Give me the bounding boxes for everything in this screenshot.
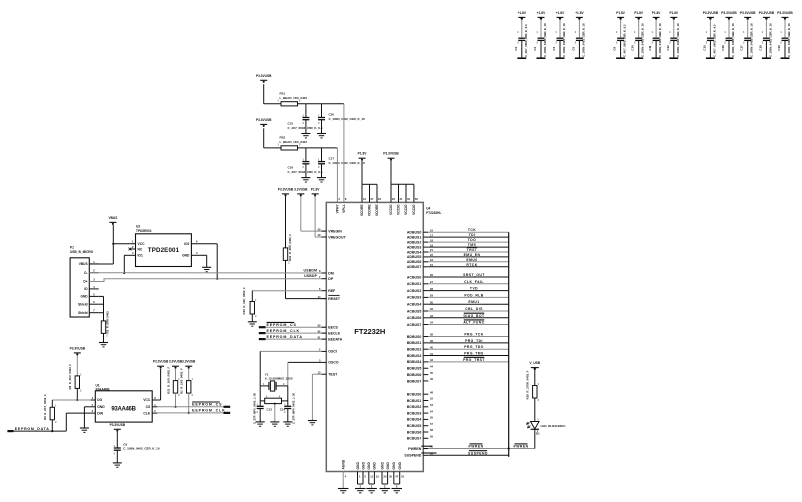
svg-text:USBDP: USBDP xyxy=(304,274,318,278)
svg-text:+1.8V: +1.8V xyxy=(537,11,546,15)
svg-text:P3.3VUSB: P3.3VUSB xyxy=(721,11,737,15)
svg-text:GND: GND xyxy=(398,462,402,470)
svg-text:C9: C9 xyxy=(613,47,617,51)
svg-text:VCORE: VCORE xyxy=(360,204,364,217)
svg-text:USBDM: USBDM xyxy=(304,268,318,272)
svg-text:VCCIO: VCCIO xyxy=(412,204,416,215)
svg-text:C_100N_0402_CER_K_16: C_100N_0402_CER_K_16 xyxy=(543,23,547,57)
svg-text:ADBUS1: ADBUS1 xyxy=(407,235,421,239)
svg-text:ACBUS3: ACBUS3 xyxy=(407,296,421,300)
svg-text:X_12.000MHZ_3225: X_12.000MHZ_3225 xyxy=(265,377,293,381)
svg-text:+1.8V: +1.8V xyxy=(556,11,565,15)
svg-text:OSCI: OSCI xyxy=(328,350,337,354)
svg-text:DM: DM xyxy=(328,271,334,275)
svg-text:L_BEAD_1K0_0402: L_BEAD_1K0_0402 xyxy=(280,140,308,144)
svg-text:P3.3VUSB: P3.3VUSB xyxy=(703,11,719,15)
svg-text:Shield: Shield xyxy=(78,311,88,315)
svg-text:C_100N_0402_CER_K_16: C_100N_0402_CER_K_16 xyxy=(329,161,366,165)
svg-text:C10: C10 xyxy=(631,45,635,51)
svg-text:EEPROM_DATA: EEPROM_DATA xyxy=(267,335,303,339)
svg-text:C_100N_0402_CER_K_16: C_100N_0402_CER_K_16 xyxy=(329,117,366,121)
svg-text:FT2232H: FT2232H xyxy=(354,327,385,336)
svg-text:TCK: TCK xyxy=(468,228,476,232)
svg-text:C16: C16 xyxy=(721,45,725,51)
svg-text:GND: GND xyxy=(367,462,371,470)
svg-text:P3.3VUSB: P3.3VUSB xyxy=(153,360,169,364)
svg-text:+1.8V: +1.8V xyxy=(518,11,527,15)
svg-text:SUSPEND: SUSPEND xyxy=(468,451,488,455)
svg-text:R2 R_0R0_0402: R2 R_0R0_0402 xyxy=(106,311,110,334)
svg-text:C16: C16 xyxy=(288,166,294,170)
svg-text:BDBUS7: BDBUS7 xyxy=(407,379,421,383)
svg-text:BCBUS7: BCBUS7 xyxy=(407,437,421,441)
svg-text:C_100N_0402_CER_K_16: C_100N_0402_CER_K_16 xyxy=(658,23,662,57)
svg-text:DIAG_BOT: DIAG_BOT xyxy=(463,314,485,318)
svg-text:C19: C19 xyxy=(777,45,781,51)
svg-text:ACBUS6: ACBUS6 xyxy=(407,316,421,320)
svg-text:3.3VUSB: 3.3VUSB xyxy=(182,360,196,364)
svg-text:C17: C17 xyxy=(740,45,744,51)
svg-text:PWREN: PWREN xyxy=(408,447,422,451)
svg-text:AGND: AGND xyxy=(342,459,346,469)
svg-text:ADBUS0: ADBUS0 xyxy=(407,231,421,235)
svg-text:TPD2E001: TPD2E001 xyxy=(136,229,152,233)
svg-text:PRG_TDI: PRG_TDI xyxy=(465,339,483,343)
svg-text:Shield: Shield xyxy=(78,302,88,306)
svg-text:VPLL: VPLL xyxy=(342,204,346,212)
svg-text:OSCO: OSCO xyxy=(328,361,339,365)
svg-text:EEPROM_CS: EEPROM_CS xyxy=(192,403,222,407)
svg-text:P1.8V: P1.8V xyxy=(358,152,368,156)
svg-text:RTCK: RTCK xyxy=(466,263,477,267)
svg-text:C_100N_0402_CER_K_16: C_100N_0402_CER_K_16 xyxy=(581,23,585,57)
svg-text:IO1: IO1 xyxy=(138,254,143,258)
svg-text:ACBUS7: ACBUS7 xyxy=(407,323,421,327)
svg-text:PRG_TDO: PRG_TDO xyxy=(464,345,484,349)
svg-text:C_100N_0402_CER_K_16: C_100N_0402_CER_K_16 xyxy=(787,23,791,57)
svg-text:TRST: TRST xyxy=(467,248,478,252)
svg-text:D+: D+ xyxy=(83,280,87,284)
svg-text:TDI: TDI xyxy=(469,233,476,237)
svg-text:C_4U7_0603_X5R_K_6.3: C_4U7_0603_X5R_K_6.3 xyxy=(524,24,528,57)
svg-text:GND: GND xyxy=(361,462,365,470)
svg-text:R1 R_1K0_0402_F: R1 R_1K0_0402_F xyxy=(180,368,184,394)
svg-text:PWREN: PWREN xyxy=(513,445,528,449)
svg-text:VPHY: VPHY xyxy=(336,204,340,214)
svg-text:CLK_FAIL: CLK_FAIL xyxy=(464,280,484,284)
svg-text:P1.8V: P1.8V xyxy=(669,11,679,15)
svg-text:C5: C5 xyxy=(571,47,575,51)
svg-text:PRG_TCK: PRG_TCK xyxy=(464,333,483,337)
svg-text:P3.3VUSB: P3.3VUSB xyxy=(759,11,775,15)
svg-text:GND: GND xyxy=(380,462,384,470)
svg-text:ADBUS3: ADBUS3 xyxy=(407,245,421,249)
svg-text:TDO: TDO xyxy=(468,238,477,242)
svg-text:ADBUS6: ADBUS6 xyxy=(407,260,421,264)
svg-text:C_4U7_0603_X5R_K_6.3: C_4U7_0603_X5R_K_6.3 xyxy=(712,24,716,57)
svg-text:VCORE: VCORE xyxy=(375,204,379,217)
svg-text:FB1: FB1 xyxy=(280,92,286,96)
svg-text:BDBUS1: BDBUS1 xyxy=(407,341,421,345)
svg-text:VCCIO: VCCIO xyxy=(397,204,401,215)
svg-text:C2: C2 xyxy=(514,47,518,51)
svg-text:C_4U7_0603_X5R_K_6.3: C_4U7_0603_X5R_K_6.3 xyxy=(623,24,627,57)
svg-text:3.3VUSB: 3.3VUSB xyxy=(169,360,183,364)
svg-text:C12: C12 xyxy=(666,45,670,51)
svg-text:BCBUS0: BCBUS0 xyxy=(407,393,421,397)
svg-text:C18: C18 xyxy=(758,45,762,51)
svg-text:TMS: TMS xyxy=(468,243,477,247)
svg-text:VREGIN: VREGIN xyxy=(328,229,342,233)
svg-text:BCBUS4: BCBUS4 xyxy=(407,418,421,422)
svg-text:VCC: VCC xyxy=(138,242,146,246)
svg-text:C_27P_NP0_0402_J_50: C_27P_NP0_0402_J_50 xyxy=(252,392,256,424)
svg-text:C20: C20 xyxy=(329,113,335,117)
svg-text:L_BEAD_1K0_0402: L_BEAD_1K0_0402 xyxy=(280,96,308,100)
svg-text:EMU0: EMU0 xyxy=(466,258,477,262)
svg-text:CS: CS xyxy=(146,405,151,409)
svg-text:SUSPEND: SUSPEND xyxy=(404,454,421,458)
svg-text:NC: NC xyxy=(138,247,143,251)
svg-text:ACBUS4: ACBUS4 xyxy=(407,303,421,307)
svg-text:EECS: EECS xyxy=(328,326,338,330)
svg-text:BDBUS0: BDBUS0 xyxy=(407,335,421,339)
svg-text:ALT_FUNC: ALT_FUNC xyxy=(463,321,484,325)
svg-text:BCBUS2: BCBUS2 xyxy=(407,405,421,409)
svg-text:EEPROM_CLK: EEPROM_CLK xyxy=(192,409,225,413)
svg-text:BCBUS6: BCBUS6 xyxy=(407,430,421,434)
svg-text:VREGOUT: VREGOUT xyxy=(328,235,346,239)
svg-text:GND: GND xyxy=(182,254,190,258)
svg-text:CBL_DIS: CBL_DIS xyxy=(465,307,483,311)
svg-text:P3.3VUSB: P3.3VUSB xyxy=(70,346,86,350)
svg-text:C17: C17 xyxy=(329,157,335,161)
svg-text:TEST: TEST xyxy=(328,373,338,377)
svg-text:P1.8V: P1.8V xyxy=(616,11,626,15)
svg-text:RESET: RESET xyxy=(328,297,341,301)
svg-text:ACBUS5: ACBUS5 xyxy=(407,309,421,313)
svg-text:P3.3VUSB: P3.3VUSB xyxy=(110,423,126,427)
svg-text:DP: DP xyxy=(328,277,334,281)
svg-text:GND: GND xyxy=(356,462,360,470)
svg-text:R8 R_2K7_0402_F: R8 R_2K7_0402_F xyxy=(43,394,47,420)
svg-text:D-: D- xyxy=(84,271,87,275)
svg-text:C_100N_0402_CER_K_16: C_100N_0402_CER_K_16 xyxy=(676,23,680,57)
svg-text:POD_RLB: POD_RLB xyxy=(464,293,483,297)
svg-text:ADBUS7: ADBUS7 xyxy=(407,265,421,269)
svg-text:SRST_OUT: SRST_OUT xyxy=(463,273,485,277)
svg-text:ACBUS0: ACBUS0 xyxy=(407,275,421,279)
svg-text:GND: GND xyxy=(97,405,105,409)
svg-text:BDBUS5: BDBUS5 xyxy=(407,367,421,371)
svg-text:LED_RLN4148GC: LED_RLN4148GC xyxy=(541,424,567,428)
svg-text:BDBUS2: BDBUS2 xyxy=(407,348,421,352)
svg-text:P3.3VUSB: P3.3VUSB xyxy=(278,187,294,191)
svg-text:C15: C15 xyxy=(288,122,294,126)
svg-text:C_100N_0402_CER_K_16: C_100N_0402_CER_K_16 xyxy=(641,23,645,57)
svg-text:GND: GND xyxy=(81,295,89,299)
svg-text:ADBUS4: ADBUS4 xyxy=(407,250,421,254)
svg-text:R6 R_2K2_0402_F: R6 R_2K2_0402_F xyxy=(68,364,72,390)
svg-text:BCBUS3: BCBUS3 xyxy=(407,411,421,415)
svg-text:PRG_TMS: PRG_TMS xyxy=(464,352,484,356)
svg-text:USB_B_MICRO: USB_B_MICRO xyxy=(70,250,94,254)
svg-text:PWREN: PWREN xyxy=(468,445,483,449)
svg-text:C_27P_NP0_0402_J_50: C_27P_NP0_0402_J_50 xyxy=(292,392,296,424)
svg-text:C6: C6 xyxy=(123,442,127,446)
svg-text:C11: C11 xyxy=(648,45,652,51)
svg-text:EECLK: EECLK xyxy=(328,331,340,335)
svg-text:R28 R_270R_0402_F: R28 R_270R_0402_F xyxy=(525,370,529,399)
svg-text:ACBUS1: ACBUS1 xyxy=(407,282,421,286)
svg-text:P3.3VUSB: P3.3VUSB xyxy=(777,11,793,15)
svg-text:EEPROM_DATA: EEPROM_DATA xyxy=(15,427,50,431)
svg-text:FT2232HL: FT2232HL xyxy=(426,211,441,215)
svg-text:BCBUS5: BCBUS5 xyxy=(407,424,421,428)
svg-text:EEPROM_CLK: EEPROM_CLK xyxy=(267,329,300,333)
svg-text:+1.8V: +1.8V xyxy=(575,11,584,15)
svg-text:C_100N_0402_CER_K_16: C_100N_0402_CER_K_16 xyxy=(731,23,735,57)
svg-text:REF: REF xyxy=(328,289,336,293)
svg-text:PRG_TRST: PRG_TRST xyxy=(463,358,485,362)
svg-text:C_4U7_0603_X5R_K_6.3: C_4U7_0603_X5R_K_6.3 xyxy=(288,126,323,130)
svg-text:P3.3VUSB: P3.3VUSB xyxy=(256,118,272,122)
svg-text:EEPROM_CS: EEPROM_CS xyxy=(267,323,297,327)
svg-text:V_USB: V_USB xyxy=(529,361,540,365)
svg-text:TVD: TVD xyxy=(470,287,478,291)
svg-text:VCORE: VCORE xyxy=(368,204,372,217)
svg-text:C_100N_0402_CER_K_10: C_100N_0402_CER_K_10 xyxy=(123,447,160,451)
svg-text:U4: U4 xyxy=(426,207,430,211)
svg-text:R13 R_1K0_0402_F: R13 R_1K0_0402_F xyxy=(166,366,170,394)
svg-text:ADBUS2: ADBUS2 xyxy=(407,240,421,244)
svg-text:GND: GND xyxy=(392,462,396,470)
svg-text:P3.3VUSB: P3.3VUSB xyxy=(383,152,399,156)
svg-text:BDBUS6: BDBUS6 xyxy=(407,373,421,377)
svg-text:P3.3VUSB: P3.3VUSB xyxy=(256,74,272,78)
svg-text:P1.8V: P1.8V xyxy=(652,11,662,15)
svg-text:IO2: IO2 xyxy=(184,242,189,246)
svg-text:BCBUS1: BCBUS1 xyxy=(407,399,421,403)
svg-text:ADBUS5: ADBUS5 xyxy=(407,255,421,259)
svg-text:C3: C3 xyxy=(533,47,537,51)
svg-text:ACBUS2: ACBUS2 xyxy=(407,289,421,293)
svg-text:FB2: FB2 xyxy=(280,136,286,140)
svg-text:GND: GND xyxy=(386,462,390,470)
svg-text:VCC: VCC xyxy=(143,398,151,402)
svg-text:VCCIO: VCCIO xyxy=(389,204,393,215)
svg-text:3.3VUSB: 3.3VUSB xyxy=(294,187,308,191)
svg-text:C13: C13 xyxy=(267,408,273,412)
svg-text:P1.8V: P1.8V xyxy=(634,11,644,15)
svg-text:93AA46B: 93AA46B xyxy=(111,406,136,412)
svg-text:GND: GND xyxy=(373,462,377,470)
svg-text:VCCIO: VCCIO xyxy=(404,204,408,215)
svg-text:C15: C15 xyxy=(702,45,706,51)
svg-text:C_100N_0402_CER_K_16: C_100N_0402_CER_K_16 xyxy=(562,23,566,57)
svg-text:EMU_EN: EMU_EN xyxy=(464,253,481,257)
svg-text:TPD2E001: TPD2E001 xyxy=(148,247,180,254)
svg-text:BDBUS4: BDBUS4 xyxy=(407,360,421,364)
svg-text:C_4U7_0603_X5R_K_6.3: C_4U7_0603_X5R_K_6.3 xyxy=(288,170,323,174)
svg-text:DO: DO xyxy=(97,398,102,402)
svg-text:C_100N_0402_CER_K_16: C_100N_0402_CER_K_16 xyxy=(768,23,772,57)
svg-text:CLK: CLK xyxy=(143,411,150,415)
svg-text:BDBUS3: BDBUS3 xyxy=(407,354,421,358)
svg-text:C_100N_0402_CER_K_16: C_100N_0402_CER_K_16 xyxy=(750,23,754,57)
svg-text:VBUS: VBUS xyxy=(108,216,117,220)
svg-text:P3.3VUSB: P3.3VUSB xyxy=(740,11,756,15)
svg-text:VBUS: VBUS xyxy=(79,262,88,266)
svg-text:EEDATA: EEDATA xyxy=(328,337,342,341)
svg-text:EMU1: EMU1 xyxy=(468,300,479,304)
svg-text:R10 R_12K_0402_F: R10 R_12K_0402_F xyxy=(242,287,246,315)
svg-text:C4: C4 xyxy=(552,47,556,51)
svg-text:P1.8V: P1.8V xyxy=(311,187,321,191)
svg-text:DIN: DIN xyxy=(97,411,103,415)
